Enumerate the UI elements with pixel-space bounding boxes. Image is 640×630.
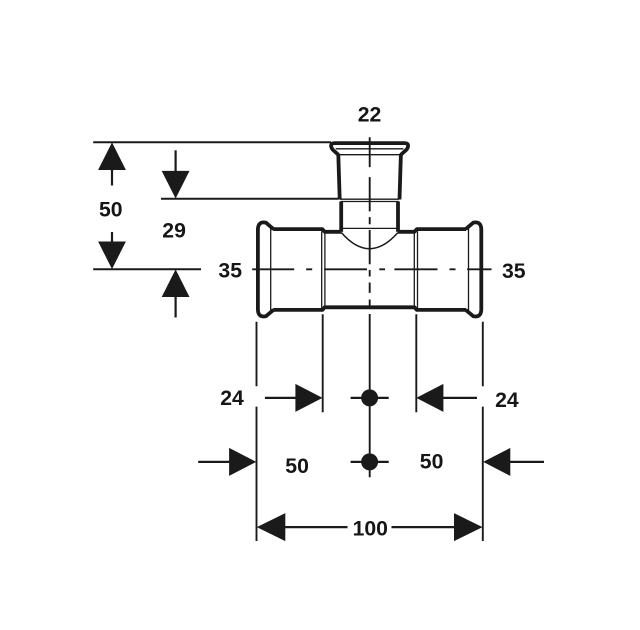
24 right arrow pointing left xyxy=(416,384,443,412)
left bead inner thin line xyxy=(270,227,272,313)
center dot with cross line (24 row) xyxy=(351,397,389,399)
vertical centerline of branch (dash-dot) xyxy=(369,137,371,306)
dimension 50 row xyxy=(198,448,544,476)
left bead outline xyxy=(258,222,274,316)
left bead face extension line xyxy=(256,322,258,541)
branch bore arc xyxy=(341,233,397,249)
body bottom edge with steps xyxy=(273,307,466,310)
100 left arrow pointing left xyxy=(257,513,286,541)
50 up arrow xyxy=(98,142,126,170)
dimension 50 vertical (left) xyxy=(98,142,126,269)
extension line C (body centerline level) xyxy=(93,268,201,270)
svg-text:35: 35 xyxy=(502,260,526,283)
extension line A (top of fitting) xyxy=(93,141,331,143)
svg-text:22: 22 xyxy=(358,103,382,126)
svg-text:50: 50 xyxy=(420,451,444,474)
100 right arrow pointing right xyxy=(454,513,483,541)
right bead inner thin line xyxy=(468,227,470,313)
50 down arrow xyxy=(98,242,126,270)
right socket end extension line xyxy=(415,314,417,412)
tee fitting top socket bead outline xyxy=(331,143,408,155)
svg-text:29: 29 xyxy=(162,220,186,243)
svg-text:50: 50 xyxy=(285,455,309,478)
right bead face extension line xyxy=(482,322,484,541)
body left socket top edge with step xyxy=(273,229,341,232)
vertical centerline extension below body xyxy=(369,314,371,477)
top socket left wall xyxy=(338,154,339,199)
100 line right part xyxy=(392,526,457,528)
body right socket top edge with step xyxy=(398,229,466,232)
50 row right arrow pointing left xyxy=(483,448,510,476)
24 left arrow pointing right xyxy=(295,384,322,412)
horizontal centerline of body (dash-dot) xyxy=(252,268,491,270)
branch tube right wall xyxy=(396,202,400,232)
dimension 24 row xyxy=(265,384,477,412)
top socket bead inner thin line xyxy=(336,148,404,150)
svg-text:24: 24 xyxy=(495,389,519,412)
hidden socket edge thin line across branch base xyxy=(341,227,398,229)
svg-text:100: 100 xyxy=(353,517,388,540)
svg-text:24: 24 xyxy=(220,387,244,410)
svg-text:35: 35 xyxy=(218,260,242,283)
svg-text:50: 50 xyxy=(99,199,123,222)
dimension 29 vertical xyxy=(162,150,190,317)
top socket right wall xyxy=(400,154,401,199)
top socket taper bottom thin line xyxy=(339,154,401,156)
29 down arrow (above line B) xyxy=(162,171,190,199)
dimension 100 row xyxy=(257,513,483,541)
100 line left part xyxy=(284,526,348,528)
left socket end extension line xyxy=(322,314,324,412)
left socket end double thin lines xyxy=(322,231,325,308)
extension line B (socket shoulder) xyxy=(161,198,338,200)
right bead outline xyxy=(466,222,482,316)
branch tube left wall xyxy=(339,202,343,232)
right socket end double thin lines xyxy=(414,231,417,308)
top socket end double thin lines xyxy=(340,199,399,201)
29 up arrow (below line C) xyxy=(162,269,190,297)
50 row left arrow pointing right xyxy=(229,448,256,476)
center dot with cross line (50 row) xyxy=(351,461,389,463)
